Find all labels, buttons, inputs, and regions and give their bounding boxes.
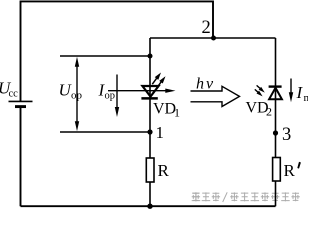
- hv hollow light arrow: [191, 86, 240, 106]
- wire outer loop: left rail, top rail, drop to node 2: [21, 1, 214, 101]
- svg-text:2: 2: [202, 18, 211, 38]
- Im current arrow: [289, 79, 293, 103]
- bottom junction dot: [147, 204, 152, 209]
- photodiode VD2 incident light arrow 2: [255, 89, 263, 96]
- wire VD1 branch vertical: [149, 38, 151, 206]
- svg-text:op: op: [71, 90, 83, 102]
- battery Ucc long plate: [9, 100, 33, 102]
- photodiode VD2 cathode bar: [269, 85, 282, 87]
- svg-text:3: 3: [282, 125, 291, 145]
- svg-text:hν: hν: [196, 75, 215, 92]
- wire VD2 branch vertical: [275, 38, 277, 206]
- battery Ucc short thick plate: [15, 105, 26, 108]
- watermark pseudo-text strokes: [192, 192, 300, 202]
- svg-text:m: m: [304, 92, 309, 104]
- svg-text:R: R: [158, 161, 170, 180]
- node 2 junction dot: [211, 36, 216, 41]
- svg-text:op: op: [105, 91, 116, 102]
- resistor R: [146, 158, 154, 182]
- wire Uop top reference line: [60, 55, 150, 57]
- LED VD1 cathode bar: [141, 97, 157, 100]
- wire bottom rail: [21, 107, 276, 207]
- LED VD1 emission arrow 2: [157, 76, 166, 88]
- svg-text:1: 1: [174, 106, 180, 120]
- svg-text:cc: cc: [9, 88, 19, 99]
- Uop double-headed arrow: [75, 57, 79, 131]
- node junction dot at Uop top ref: [148, 54, 153, 59]
- svg-text:1: 1: [156, 123, 165, 142]
- LED VD1 horizontal emission arrow: [108, 89, 176, 93]
- wire Uop bottom reference line: [60, 131, 150, 133]
- photodiode VD2 triangle: [269, 88, 282, 99]
- node 3 junction dot: [273, 130, 278, 135]
- Iop current arrow: [115, 75, 119, 118]
- node 1 junction dot: [147, 129, 152, 134]
- svg-text:2: 2: [266, 105, 272, 119]
- svg-text:R: R: [284, 161, 296, 180]
- wire node2 horizontal rail: [150, 37, 276, 39]
- LED VD1 emission arrow 1: [152, 73, 161, 85]
- LED VD1 diode triangle: [142, 86, 158, 97]
- resistor R': [273, 158, 281, 182]
- svg-text:VD: VD: [153, 101, 176, 118]
- photodiode VD2 incident light arrow 1: [257, 85, 265, 92]
